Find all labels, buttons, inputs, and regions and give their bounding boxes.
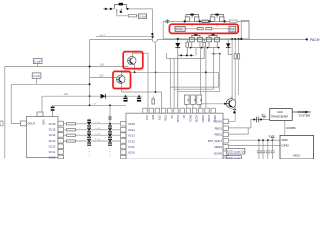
svg-text:DCHG: DCHG [214, 151, 222, 155]
svg-text:ESD Logic Out: ESD Logic Out [227, 150, 246, 154]
vertical rail x89 [89, 40, 91, 106]
wire gate bus 1 [178, 54, 194, 56]
wire COMM [284, 120, 286, 135]
top pins U1 [143, 108, 216, 113]
left pins U1 [121, 121, 127, 158]
svg-text:VC15: VC15 [49, 128, 56, 132]
svg-text:VC14: VC14 [128, 128, 135, 132]
wire Q11 top [133, 53, 148, 108]
wire rail 140 [228, 139, 272, 141]
wire gate bus 2 [167, 58, 205, 60]
svg-text:10k: 10k [64, 92, 69, 96]
svg-text:VC12: VC12 [49, 144, 56, 148]
svg-text:VC10: VC10 [49, 155, 56, 159]
wire reg bus [53, 104, 126, 106]
wire VDD [273, 139, 281, 141]
wire row3 [63, 134, 120, 136]
left vertical rail [4, 67, 6, 159]
wire right verticals [231, 39, 233, 99]
resistor R8 [234, 38, 236, 121]
value box C1 label [138, 14, 147, 19]
label cap values [95, 122, 101, 141]
svg-text:DSG: DSG [229, 28, 234, 31]
svg-text:DOUT: DOUT [28, 122, 36, 126]
svg-text:VC13: VC13 [128, 134, 135, 138]
value box C6 [32, 73, 41, 84]
transistor FET pair Q9 Q10 lower [207, 34, 220, 49]
svg-text:PCHG: PCHG [176, 115, 180, 123]
node dot 2 [110, 8, 112, 10]
wire gate link 2 [212, 28, 229, 30]
wires RN to pins [186, 104, 188, 108]
IC U2 left monitor [21, 112, 59, 158]
svg-text:1uF: 1uF [93, 104, 97, 106]
capacitor C9 [51, 107, 55, 117]
labels U1 right [208, 120, 223, 156]
capacitor C8 [137, 95, 141, 101]
resistor R10 [109, 116, 111, 119]
svg-text:CP1: CP1 [157, 115, 161, 121]
rail third [90, 76, 117, 78]
wire GPIO [255, 145, 280, 147]
power tick 5V [262, 116, 267, 118]
svg-text:VC15: VC15 [128, 122, 135, 126]
svg-text:5V: 5V [262, 113, 266, 117]
wire rail 145.5 [228, 145, 267, 147]
svg-text:SYSTEM: SYSTEM [299, 114, 311, 118]
wire notch feed [41, 96, 43, 112]
red box highlight top [169, 24, 238, 33]
svg-text:0.1uF: 0.1uF [139, 14, 147, 18]
resistor R6 [186, 39, 189, 56]
wire gate bus drop [166, 53, 168, 59]
capacitor columns [257, 140, 275, 159]
diode D2 [226, 39, 232, 55]
svg-text:VDD: VDD [281, 138, 288, 142]
svg-text:REG2: REG2 [215, 133, 223, 137]
svg-text:VC11: VC11 [128, 145, 135, 149]
node dot PACK plus end [306, 38, 308, 40]
svg-text:0.1uF: 0.1uF [95, 133, 101, 135]
resistor R5 [206, 28, 212, 30]
resistor R14 [67, 140, 76, 142]
node dot Q1 right [127, 8, 129, 10]
svg-text:0.1uF: 0.1uF [95, 122, 101, 124]
svg-text:CAN: CAN [277, 110, 283, 114]
right side wiring [226, 113, 280, 160]
labels U1 left [128, 122, 135, 154]
resistor R1 [128, 15, 136, 17]
wire row1 [63, 123, 120, 125]
svg-text:ACHG: ACHG [195, 115, 199, 123]
capacitor C18 [87, 119, 91, 124]
svg-text:VC13: VC13 [49, 139, 56, 143]
labels U1 top vertical [145, 115, 217, 123]
resistor R11 [67, 123, 76, 125]
resistor box RN3 [197, 95, 202, 104]
resistor R13 [67, 134, 76, 136]
wire gate link [185, 28, 197, 30]
gate driver box right [229, 26, 236, 32]
annotation box 2 [226, 156, 241, 159]
IC U2 right pins [58, 121, 63, 159]
svg-text:0.1uF: 0.1uF [33, 74, 40, 78]
svg-text:NC: NC [170, 115, 174, 119]
cell filter rows [58, 104, 122, 157]
red box highlight lower [113, 71, 131, 88]
wire trio 2 [174, 88, 214, 90]
wire dashed continuation cells [58, 145, 122, 158]
svg-text:PACK-: PACK- [100, 34, 107, 37]
resistor network boxes [184, 95, 201, 108]
svg-text:PDSG: PDSG [201, 115, 205, 122]
node B dot [152, 36, 154, 38]
wire trio 3 [178, 90, 220, 92]
wire sense loop [241, 21, 249, 39]
right pins U1 [223, 119, 228, 159]
wire Q1 base drop [117, 13, 128, 16]
svg-text:100: 100 [100, 63, 105, 67]
wire row2 [63, 129, 120, 131]
capacitor C15 [108, 137, 112, 140]
svg-text:MCU: MCU [294, 154, 301, 158]
svg-text:LD: LD [182, 115, 186, 118]
capacitor C14 [108, 131, 112, 134]
wire Q1 collector to right [127, 8, 153, 10]
MCU box [280, 120, 314, 159]
svg-text:PACK: PACK [188, 115, 192, 122]
svg-text:VC10: VC10 [128, 151, 135, 155]
capacitor C11 [87, 131, 91, 134]
svg-text:TRANSCEIVER: TRANSCEIVER [271, 116, 288, 119]
svg-text:0.1uF: 0.1uF [95, 139, 101, 141]
wire gate feed down left [155, 43, 157, 93]
svg-text:VC11: VC11 [49, 150, 56, 154]
gate driver box left [175, 26, 185, 31]
wire 5V rail [228, 120, 269, 128]
wire gate stubs [191, 23, 193, 26]
svg-text:0.1uF: 0.1uF [34, 59, 41, 63]
capacitor C12 [87, 137, 91, 140]
svg-text:ESD Logic: ESD Logic [227, 156, 241, 159]
transistor Q11 in circle [128, 56, 136, 64]
svg-text:0.1uF: 0.1uF [95, 128, 101, 130]
wire long rail PACK plus [90, 40, 308, 43]
resistor R4 [197, 28, 203, 30]
junction dots rows [88, 123, 111, 142]
svg-text:REG1: REG1 [215, 126, 223, 130]
svg-text:PCHG: PCHG [176, 28, 183, 31]
wire cap column links [88, 124, 90, 141]
resistor R9 [152, 97, 155, 104]
svg-text:DENS: DENS [215, 145, 223, 149]
junction dots rail [258, 139, 260, 141]
wire Q2 collector up [230, 97, 232, 99]
transistor FET pair Q3 Q4 top [184, 14, 201, 23]
svg-text:PACK+: PACK+ [310, 38, 320, 42]
svg-text:COMM: COMM [286, 126, 296, 130]
wire vertical from top circuit down [152, 9, 154, 40]
capacitor C17 [87, 142, 112, 145]
resistor R7 [203, 39, 206, 59]
svg-text:100: 100 [99, 74, 104, 78]
svg-text:VC12: VC12 [128, 139, 135, 143]
value box C5 [33, 58, 42, 66]
wire REG1 to rail [228, 127, 248, 129]
transistor FET pair Q7 Q8 lower [189, 34, 202, 49]
svg-text:VC14: VC14 [49, 133, 56, 137]
transistor Q1 [114, 3, 126, 13]
wire gate dot bus [211, 53, 221, 55]
wire arrow to system [292, 111, 305, 113]
svg-text:REGIN: REGIN [213, 120, 222, 124]
svg-text:GPIO: GPIO [281, 144, 289, 148]
svg-text:BAT: BAT [151, 115, 155, 120]
IC U1 main monitor [121, 108, 229, 159]
dot reg bus column [109, 104, 111, 106]
annotation box 1 [226, 148, 245, 154]
node dot sense left [240, 38, 242, 40]
rail second [11, 83, 89, 85]
pin notch top [37, 112, 43, 117]
capacitor C16 [255, 117, 257, 123]
wire REG2 [228, 128, 248, 134]
node A dot [151, 33, 153, 35]
svg-text:FUSE: FUSE [207, 115, 211, 122]
transistor Q2 in circle [201, 97, 236, 114]
wire rail mid 73 [122, 72, 219, 87]
wire Q2 emitter + terminator [233, 107, 235, 109]
transistor FET pair Q5 Q6 top [209, 14, 226, 23]
connector stub left edge [0, 121, 3, 126]
capacitor C2 stub [165, 19, 169, 23]
capacitor C7 [123, 95, 127, 101]
svg-text:RST_SHUT: RST_SHUT [208, 139, 223, 143]
svg-text:VC1: VC1 [145, 115, 149, 121]
wire rail mid-left [96, 36, 153, 38]
resistor R3 [230, 20, 238, 23]
diode D1 [175, 38, 180, 108]
wire Q11 bottom [134, 64, 136, 73]
rail VBAT left [5, 66, 129, 68]
wire R1 to box [137, 15, 139, 17]
svg-text:100R: 100R [137, 70, 143, 72]
svg-text:VC16: VC16 [49, 122, 56, 126]
node dot left [105, 8, 107, 10]
wire comb verticals center [200, 48, 202, 108]
pin DOUT [21, 121, 27, 126]
wire Q2 base [201, 103, 226, 105]
resistor R15 [238, 38, 240, 59]
resistor R2 sense [202, 20, 208, 23]
wire top-left input [103, 8, 114, 10]
capacitor C10 [87, 125, 91, 128]
svg-text:CHG: CHG [164, 115, 168, 121]
transistor Q12 in circle [117, 75, 125, 83]
diode D3 [42, 94, 142, 99]
capacitor C13 [108, 125, 112, 128]
resistor box RN2 [191, 95, 196, 104]
resistor box RN1 [184, 95, 189, 104]
protection section outer box [163, 21, 249, 39]
wire circle2 bottom bus [122, 83, 162, 108]
wire row4 [63, 140, 120, 142]
red box highlight middle [123, 52, 143, 69]
wire gate row link [170, 32, 237, 34]
resistor R12 [67, 129, 76, 131]
svg-text:VDD: VDD [42, 119, 46, 125]
CAN transceiver box [270, 109, 312, 121]
